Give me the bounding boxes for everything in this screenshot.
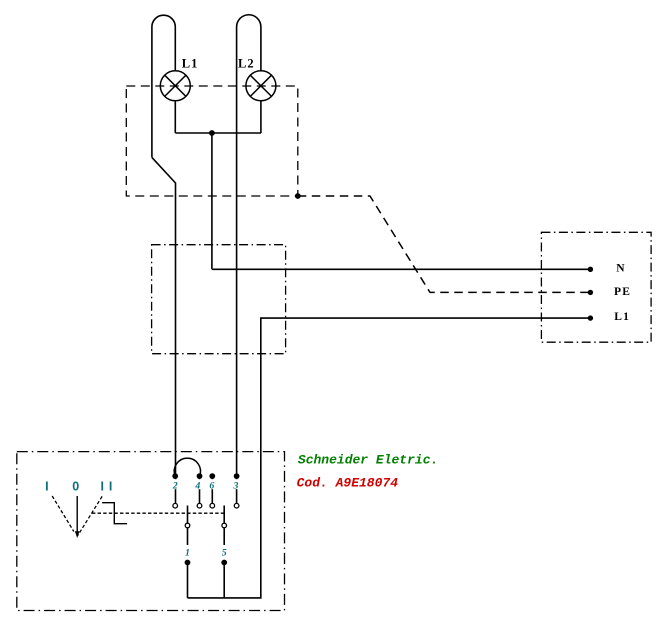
svg-text:L1: L1 — [614, 311, 630, 323]
svg-text:Schneider Eletric.: Schneider Eletric. — [298, 453, 438, 468]
svg-text:I: I — [101, 480, 104, 494]
svg-text:I: I — [109, 480, 112, 494]
svg-text:1: 1 — [185, 548, 190, 559]
svg-text:0: 0 — [72, 480, 79, 494]
svg-text:5: 5 — [222, 548, 227, 559]
svg-text:3: 3 — [233, 481, 239, 492]
svg-text:N: N — [616, 263, 626, 275]
svg-text:2: 2 — [172, 481, 178, 492]
svg-text:Cod. A9E18074: Cod. A9E18074 — [297, 476, 399, 491]
svg-text:PE: PE — [614, 286, 631, 298]
svg-text:L1: L1 — [182, 57, 199, 71]
svg-text:L2: L2 — [238, 57, 255, 71]
svg-text:4: 4 — [194, 481, 200, 492]
svg-text:I: I — [45, 480, 48, 494]
svg-text:6: 6 — [209, 481, 214, 492]
